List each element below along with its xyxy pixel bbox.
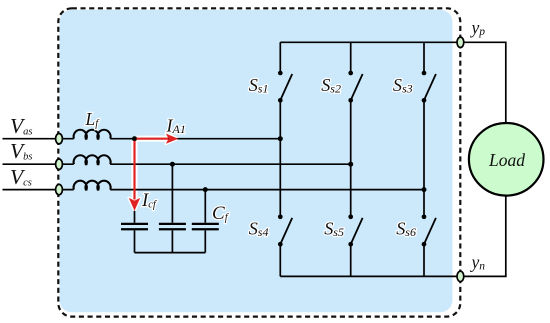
svg-text:Vas: Vas: [10, 114, 32, 138]
capacitor bottom bus wire: [135, 252, 206, 254]
wire phase A: [3, 138, 281, 140]
switch Ss5 blade: [351, 218, 363, 244]
capacitor Cf3 plates: [192, 224, 219, 229]
wire phase B: [3, 163, 351, 165]
terminal yp: [457, 37, 464, 47]
switch Ss3 terminals: [422, 71, 427, 76]
switch Ss2 blade: [351, 74, 363, 100]
junction node C-cap3: [203, 187, 208, 192]
terminal yn: [457, 271, 464, 281]
terminal Vas: [56, 134, 63, 144]
inductor Lf phase C: [74, 181, 111, 190]
switch Ss1 terminals: [278, 71, 283, 76]
junction node A-col1: [278, 136, 283, 141]
switch Ss5 terminals: [348, 214, 353, 219]
wire phase C: [3, 189, 425, 191]
bottom DC bus: [280, 196, 506, 277]
terminal Vcs: [56, 184, 63, 194]
switch Ss6 terminals: [422, 214, 427, 219]
inductor Lf phase A: [74, 130, 111, 139]
capacitor Cf1 plates: [121, 224, 148, 229]
switch Ss6 blade: [424, 218, 436, 244]
junction node C-col3: [422, 187, 427, 192]
switch leg column 1: [279, 42, 281, 276]
terminal Vbs: [56, 159, 63, 169]
svg-text:yp: yp: [470, 18, 486, 39]
capacitor Cf1 stem: [134, 211, 136, 253]
svg-text:Load: Load: [488, 150, 525, 170]
load circle: [469, 123, 544, 196]
switch Ss2 terminals: [348, 71, 353, 76]
capacitor Cf2 stem: [171, 164, 173, 252]
current arrow Icf: [129, 141, 140, 211]
current arrow IA1: [137, 134, 179, 144]
wire halo for current arrow Icf: [129, 141, 140, 211]
junction node B-col2: [348, 162, 353, 167]
capacitor Cf3 stem: [204, 190, 206, 253]
switch Ss1 blade: [280, 74, 292, 100]
capacitor Cf2 plates: [159, 224, 186, 229]
junction node B-cap2: [170, 162, 175, 167]
inductor Lf phase B: [74, 155, 111, 164]
switch Ss3 blade: [424, 74, 436, 100]
switch leg column 2: [350, 42, 352, 276]
switch Ss4 blade: [280, 218, 292, 244]
junction node A-red: [132, 136, 137, 141]
switch Ss4 terminals: [278, 214, 283, 219]
converter enclosure dashed border: [58, 8, 460, 316]
svg-text:Vbs: Vbs: [10, 139, 32, 163]
svg-text:yn: yn: [470, 252, 486, 273]
switch leg column 3: [423, 42, 425, 276]
top DC bus: [280, 42, 506, 123]
wire halo for current arrow IA1: [137, 134, 179, 144]
svg-text:Vcs: Vcs: [10, 165, 32, 189]
converter enclosure fill: [60, 10, 453, 312]
